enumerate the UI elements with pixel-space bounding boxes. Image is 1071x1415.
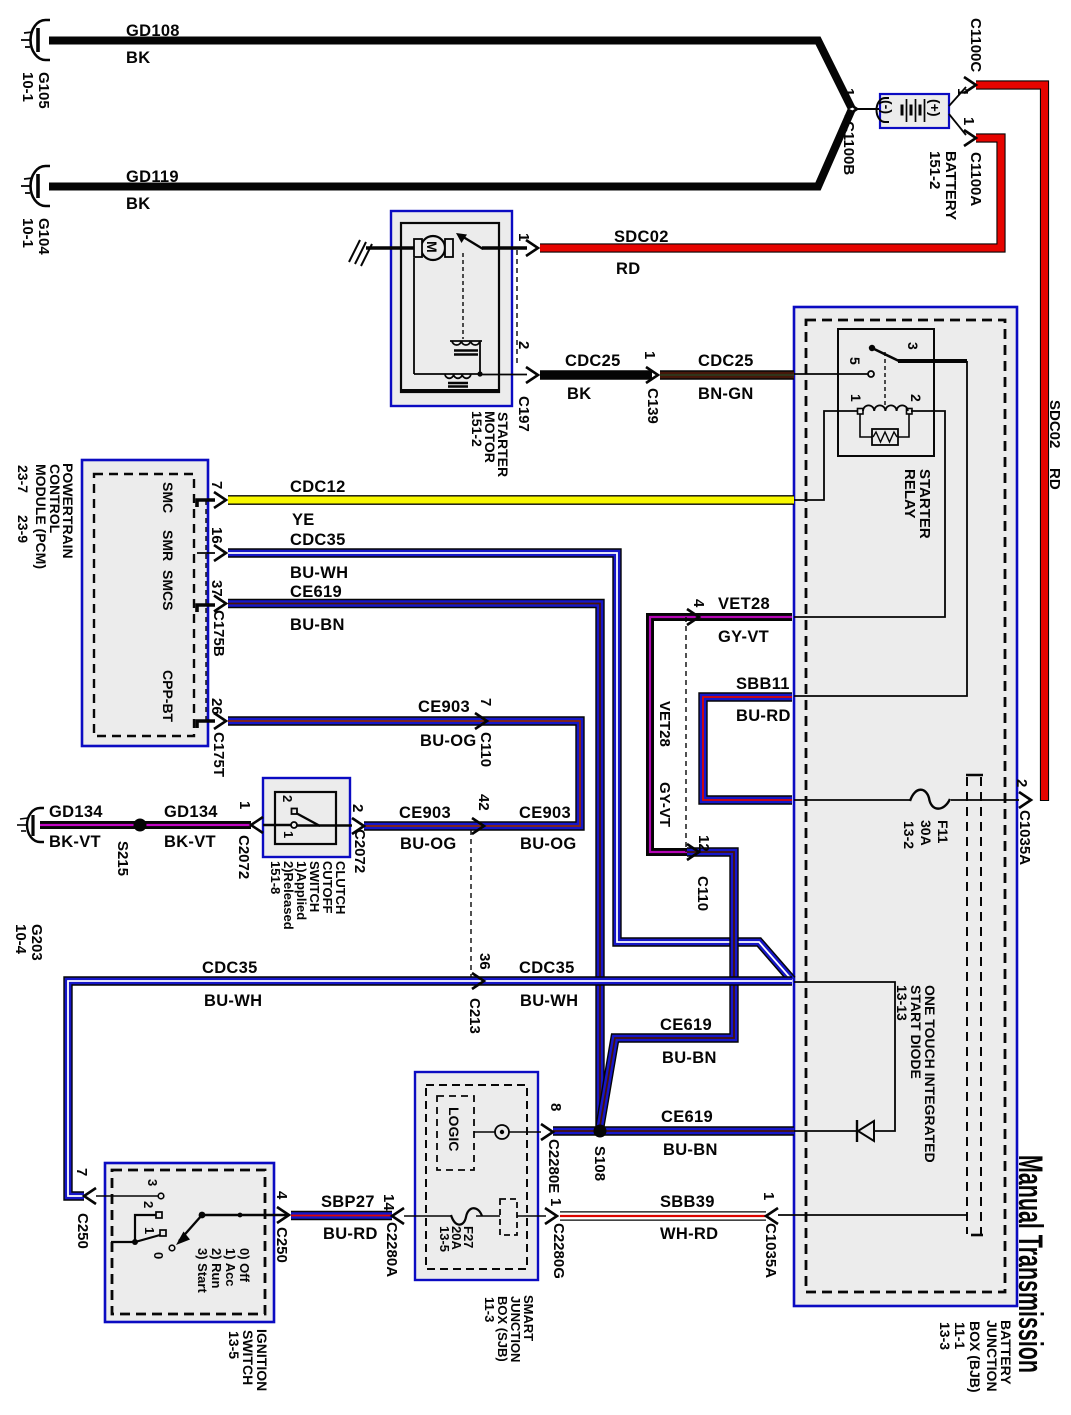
wire ignition switch output to pin 4 [202, 1214, 288, 1217]
label PCM pin names [160, 482, 176, 723]
wire GD134 BK-VT (G203 via S215 to clutch switch pin 1) [40, 821, 251, 829]
svg-text:GY-VT: GY-VT [718, 628, 769, 646]
svg-text:BOX (BJB): BOX (BJB) [967, 1321, 983, 1393]
svg-text:4: 4 [273, 1191, 290, 1200]
svg-text:10-4: 10-4 [12, 924, 29, 955]
label title Manual Transmission [1011, 1155, 1049, 1373]
label fuse F27 20A [437, 1226, 476, 1252]
svg-text:0) Off: 0) Off [237, 1248, 252, 1283]
svg-text:13-13: 13-13 [894, 985, 910, 1021]
svg-text:C213: C213 [466, 998, 483, 1034]
connector dashed line C175 (PCM pins) [205, 500, 207, 722]
label SJB pin 8 C2280E [545, 1103, 564, 1193]
svg-text:7: 7 [208, 481, 225, 489]
wire CE619 BU-BN (SJB pin 8 via S108 to BJB diode) [553, 1126, 794, 1135]
wire clutch switch pin 1 internal [263, 824, 291, 826]
label wire SBB11 BU-RD [736, 675, 791, 725]
svg-text:SBB11: SBB11 [736, 675, 790, 693]
arrow C139 pin 1 [646, 367, 658, 383]
wire BJB diode loop (CDC35 node to diode to CE619) [794, 982, 895, 1131]
svg-text:VET28: VET28 [656, 701, 673, 747]
starter motor symbol [414, 236, 453, 260]
svg-text:CE903: CE903 [418, 698, 470, 716]
svg-text:42: 42 [475, 794, 492, 811]
svg-text:SDC02: SDC02 [614, 228, 669, 246]
arrow SJB pin 1 C2280G [545, 1208, 557, 1224]
label connector C175B C175T [210, 610, 227, 777]
battery box [880, 94, 949, 128]
svg-text:1: 1 [281, 831, 296, 838]
svg-text:C139: C139 [644, 388, 661, 424]
label C110 pin 7 [477, 698, 494, 767]
svg-text:2: 2 [1013, 779, 1030, 787]
svg-text:CE903: CE903 [519, 804, 571, 822]
wire BJB relay pin 2 to VET28 [794, 411, 945, 617]
label battery [926, 151, 959, 220]
label wire VET28 GY-VT [718, 595, 770, 646]
svg-text:SMC: SMC [160, 482, 176, 513]
svg-text:MODULE (PCM): MODULE (PCM) [33, 464, 49, 569]
svg-text:GD134: GD134 [49, 803, 103, 821]
label wire CE903 BU-OG upper [418, 698, 477, 750]
label C1035A pin 2 [1013, 779, 1033, 865]
label ignition terminals [141, 1179, 166, 1259]
svg-text:C250: C250 [74, 1213, 91, 1249]
svg-text:1: 1 [641, 351, 658, 359]
svg-text:VET28: VET28 [718, 595, 770, 613]
label starter motor pins C197 [515, 233, 532, 432]
label wire CE619 BU-BN lower [661, 1108, 718, 1159]
label junction S215 [114, 841, 131, 876]
svg-text:G203: G203 [28, 924, 45, 961]
svg-text:1: 1 [840, 88, 857, 96]
arrow SJB pin 8 C2280E [541, 1124, 553, 1140]
label C110 pin 12 [694, 835, 712, 911]
wire BJB relay pin 3 to SBB11 [794, 361, 967, 696]
svg-text:12: 12 [695, 835, 712, 852]
label wire CE903 BU-OG lower left [399, 804, 457, 853]
arrow C1035A pin 2 [1019, 792, 1031, 808]
svg-text:23-9: 23-9 [15, 515, 31, 543]
wire clutch switch output internal [297, 824, 352, 826]
arrow SJB pin 14 C2280A [392, 1208, 404, 1224]
svg-text:16: 16 [208, 527, 225, 544]
label C1035A pin 1 [760, 1192, 779, 1278]
wire CE619 BU-BN (PCM pin 37 down to S108) [228, 604, 600, 1132]
label ignition pin 4 C250 [273, 1191, 290, 1263]
label ground G104 [19, 218, 52, 255]
svg-text:CDC35: CDC35 [202, 959, 258, 977]
svg-text:13-3: 13-3 [937, 1322, 953, 1350]
wire SJB logic to pin 8 [474, 1131, 541, 1133]
arrow PCM pin 7 [214, 492, 226, 508]
wire CE619 BU-BN (C110 pin 12 loop down to S108) [600, 852, 734, 1126]
arrow C110 pin 7 [475, 713, 487, 729]
svg-text:13-5: 13-5 [437, 1226, 452, 1252]
wire CDC25 BK (starter motor pin 2 to C139) [540, 370, 652, 380]
svg-text:S108: S108 [591, 1146, 608, 1181]
label SJB logic [446, 1107, 462, 1151]
label battery C1100A pin 1 [960, 117, 984, 206]
label PCM [15, 463, 76, 569]
wire GD108 BK (G105 to battery) [49, 41, 852, 109]
svg-text:C1035A: C1035A [1016, 810, 1033, 865]
label ignition pin 7 C250 [73, 1168, 91, 1249]
svg-text:1: 1 [547, 1198, 564, 1206]
wire CE903 BU-OG (PCM pin 26 via C110-7 down to clutch switch pin 2) [228, 721, 580, 826]
label SJB pin 14 C2280A [380, 1194, 400, 1277]
arrow PCM pin 37 [214, 596, 226, 612]
svg-text:151-8: 151-8 [268, 861, 283, 894]
svg-text:CE619: CE619 [660, 1016, 712, 1034]
svg-text:BU-OG: BU-OG [520, 835, 577, 853]
svg-text:CE619: CE619 [290, 583, 342, 601]
wire SDC02 RD (battery C1100C down right side to C1035A) [976, 85, 1045, 801]
label ignition positions [195, 1248, 252, 1293]
wire CDC35 BU-WH (PCM pin 16 to BJB node) [228, 553, 792, 980]
label wire CE903 BU-OG lower right [519, 804, 577, 853]
svg-text:SMR: SMR [160, 530, 176, 561]
ground G105 [21, 20, 50, 60]
fuse F27 [451, 1208, 482, 1224]
label clutch switch internal pins [280, 795, 296, 838]
svg-text:CDC12: CDC12 [290, 478, 346, 496]
label wire SDC02 RD horizontal [614, 228, 669, 278]
svg-text:M: M [424, 241, 440, 253]
wire ignition pin 7 to terminal 3 [96, 1195, 158, 1197]
arrow PCM pin 26 [214, 713, 226, 729]
arrow C1100B [845, 101, 857, 117]
diode (one touch integrated start) [857, 1120, 874, 1142]
label wire CDC35 BU-WH upper [290, 531, 348, 582]
svg-text:1: 1 [760, 1192, 777, 1200]
arrow starter motor pin 2 C197 [526, 367, 538, 383]
svg-text:C1100B: C1100B [840, 121, 857, 175]
label starter relay pins [847, 342, 924, 402]
svg-text:1: 1 [142, 1227, 157, 1234]
label junction S108 [591, 1146, 608, 1181]
svg-text:BK-VT: BK-VT [164, 833, 216, 851]
svg-text:C250: C250 [273, 1227, 290, 1263]
svg-text:G104: G104 [35, 218, 52, 255]
svg-text:G105: G105 [35, 72, 52, 109]
SJB logic output circle [495, 1125, 509, 1139]
svg-text:SMCS: SMCS [160, 570, 176, 610]
svg-text:36: 36 [476, 953, 493, 970]
svg-text:RELAY: RELAY [901, 469, 918, 518]
svg-text:GD119: GD119 [126, 168, 179, 186]
svg-text:C110: C110 [477, 732, 494, 767]
SJB logic box (dashed) [437, 1096, 474, 1170]
svg-text:C2280G: C2280G [550, 1223, 567, 1279]
svg-text:BK: BK [126, 49, 150, 67]
arrow C213 pin 36 [472, 973, 484, 989]
svg-text:BK: BK [567, 385, 591, 403]
fuse F11 [910, 790, 950, 809]
label wire GD119 BK [126, 168, 179, 213]
svg-text:BU-WH: BU-WH [520, 992, 578, 1010]
wire PCM pin stubs [197, 500, 215, 728]
svg-text:26: 26 [208, 698, 225, 715]
svg-text:BN-GN: BN-GN [698, 385, 754, 403]
wire starter motor switch to pin 1 [482, 246, 527, 250]
svg-text:13-5: 13-5 [226, 1331, 242, 1359]
wire CDC25 BN-GN (C139 to BJB) [660, 370, 794, 380]
svg-text:11-3: 11-3 [482, 1297, 497, 1322]
svg-text:C2072: C2072 [235, 835, 252, 879]
label SJB pin 1 C2280G [547, 1198, 567, 1279]
connector dashed line C110 [685, 617, 687, 852]
wire SBB11 BU-RD (BJB relay pin 3 loop to F11) [703, 697, 792, 800]
starter motor switch blade [456, 233, 483, 249]
wire ignition terminal 2/1 tie [111, 1215, 160, 1242]
battery junction box BJB [794, 307, 1017, 1306]
label wire SBB39 WH-RD [660, 1193, 718, 1243]
svg-text:2: 2 [141, 1201, 156, 1208]
wire SDC02 RD (battery C1100A to starter motor pin 1) [540, 138, 1001, 248]
svg-text:C2280E: C2280E [545, 1139, 562, 1193]
label fuse F11 30A [901, 820, 951, 849]
label connector C1100B pin 1 [840, 88, 857, 175]
label ground G105 [19, 72, 52, 109]
svg-text:GD134: GD134 [164, 803, 218, 821]
svg-text:C1035A: C1035A [762, 1223, 779, 1278]
svg-text:Manual Transmission: Manual Transmission [1011, 1155, 1049, 1373]
wire VET28 GY-VT (BJB to C110 pin 4 / pin 12) [650, 617, 792, 852]
svg-text:2: 2 [515, 341, 532, 349]
label wire CDC12 YE [290, 478, 346, 529]
svg-text:RD: RD [1046, 468, 1063, 490]
svg-text:13-2: 13-2 [901, 821, 917, 849]
wire BJB F11 feed [794, 799, 911, 801]
svg-text:4: 4 [690, 599, 707, 608]
starter relay link dashed [884, 352, 886, 406]
junction S215 [134, 819, 147, 832]
label wire GD134 BK-VT left [49, 803, 103, 851]
svg-text:C2072: C2072 [351, 829, 368, 873]
F27 fuse holder dashed box [500, 1199, 517, 1235]
ignition switch blade [176, 1212, 242, 1245]
label wire CDC25 BN-GN [698, 352, 754, 403]
label wire SDC02 RD vertical [1046, 400, 1063, 490]
wire SBB39 WH-RD (SJB pin 1 to BJB C1035A pin 1) [560, 1211, 766, 1220]
wire CDC35 BU-WH (BJB node via C213-36 down to ignition switch pin 7) [68, 981, 792, 1196]
svg-text:CDC35: CDC35 [519, 959, 575, 977]
svg-text:CE619: CE619 [661, 1108, 713, 1126]
arrow ignition pin 4 C250 [277, 1207, 289, 1223]
label clutch pin 2 C2072 [349, 804, 368, 873]
starter motor box [391, 211, 512, 406]
BJB internal bus bar (dashed) [966, 775, 983, 1235]
svg-text:8: 8 [547, 1103, 564, 1111]
starter relay box [838, 329, 934, 456]
wire BJB relay pin 5 to CDC25 [794, 373, 868, 375]
wire BJB relay pin 1 to CDC12 [794, 411, 858, 500]
svg-text:C1100A: C1100A [967, 152, 984, 206]
svg-text:10-1: 10-1 [19, 72, 36, 102]
svg-text:1: 1 [515, 233, 532, 241]
svg-text:0: 0 [151, 1252, 166, 1259]
svg-text:11-1: 11-1 [952, 1322, 968, 1349]
connector dashed line C197 [516, 250, 518, 364]
label PCM pin numbers [208, 481, 225, 715]
smart junction box SJB [415, 1072, 538, 1280]
starter relay resistor [860, 414, 909, 445]
svg-text:C175B: C175B [210, 610, 227, 657]
svg-text:GY-VT: GY-VT [656, 782, 673, 827]
arrow C110 pin 4 [687, 609, 699, 625]
battery right bracket wires [949, 87, 966, 135]
wire SJB pin 14 to F27 to pin 1 [404, 1215, 546, 1217]
svg-text:YE: YE [292, 511, 315, 529]
arrow battery C1100C [964, 77, 976, 93]
svg-text:2) Run: 2) Run [209, 1248, 224, 1289]
label C110 pin 4 [690, 599, 707, 608]
svg-text:1: 1 [960, 117, 977, 125]
svg-text:C110: C110 [694, 876, 711, 911]
battery cells [902, 99, 925, 122]
connector dashed line C213 [470, 830, 472, 977]
battery connector arc C1100B [877, 98, 890, 122]
arrow C110 pin 12 [687, 844, 699, 860]
svg-text:30A: 30A [918, 820, 934, 846]
svg-text:CDC25: CDC25 [698, 352, 754, 370]
label battery terminals [879, 99, 943, 117]
starter motor chassis hatch [349, 240, 372, 266]
svg-text:3: 3 [145, 1179, 160, 1186]
ground G203 [17, 808, 44, 842]
label clutch cutoff switch [268, 861, 348, 930]
arrow battery C1100A [964, 130, 976, 146]
svg-text:2: 2 [349, 804, 366, 812]
arrow C213 pin 42 [472, 818, 484, 834]
svg-text:23-7: 23-7 [15, 465, 31, 493]
ignition switch box [105, 1163, 274, 1322]
powertrain control module PCM box [82, 460, 208, 746]
svg-text:SBP27: SBP27 [321, 1193, 375, 1211]
label battery junction box [937, 1320, 1014, 1393]
svg-text:CDC35: CDC35 [290, 531, 346, 549]
svg-text:1: 1 [236, 801, 253, 809]
wire starter motor coil to pin 2 [480, 374, 527, 376]
junction S108 [594, 1125, 607, 1138]
svg-text:BU-WH: BU-WH [290, 564, 348, 582]
label smart junction box [482, 1295, 536, 1362]
svg-text:RD: RD [616, 260, 640, 278]
label wire GD108 BK [126, 22, 180, 67]
svg-text:GD108: GD108 [126, 22, 180, 40]
svg-text:151-2: 151-2 [926, 151, 943, 189]
wire GD119 BK (G104 to battery) [49, 110, 852, 187]
starter relay pin 5 terminal [868, 371, 874, 377]
label wire CE619 BU-BN upper [290, 583, 345, 634]
svg-text:BK: BK [126, 195, 150, 213]
svg-text:C197: C197 [515, 396, 532, 432]
svg-text:BU-OG: BU-OG [420, 732, 477, 750]
label starter relay [901, 469, 933, 539]
svg-text:BU-WH: BU-WH [204, 992, 262, 1010]
svg-text:1) Acc: 1) Acc [223, 1248, 238, 1287]
svg-text:3) Start: 3) Start [195, 1248, 210, 1293]
svg-text:BU-RD: BU-RD [323, 1225, 378, 1243]
svg-text:SDC02: SDC02 [1046, 400, 1063, 448]
label starter motor [469, 411, 511, 477]
svg-text:BU-RD: BU-RD [736, 707, 791, 725]
svg-text:1: 1 [848, 394, 864, 402]
label C139 pin 1 [641, 351, 661, 424]
svg-text:1: 1 [954, 88, 971, 96]
label wire CDC35 BU-WH long right [519, 959, 578, 1010]
svg-text:7: 7 [477, 698, 494, 706]
svg-text:C1100C: C1100C [967, 18, 984, 72]
svg-text:BU-BN: BU-BN [662, 1049, 717, 1067]
svg-text:(-): (-) [879, 100, 895, 114]
label wire CDC35 BU-WH long left [202, 959, 262, 1010]
svg-text:F11: F11 [935, 820, 951, 844]
svg-text:3: 3 [905, 342, 921, 350]
svg-text:CPP-BT: CPP-BT [160, 670, 176, 723]
label wire CDC25 BK [565, 352, 621, 403]
wire CDC12 YE (PCM pin 7 to BJB) [228, 495, 794, 505]
starter motor hold-in coil [445, 374, 471, 387]
label C213 pin 36 [466, 953, 493, 1034]
svg-text:10-1: 10-1 [19, 218, 36, 248]
wire F11 to C1035A pin 2 [951, 799, 1019, 801]
starter relay switch [869, 345, 899, 361]
label clutch pin 1 C2072 [235, 801, 253, 879]
arrow PCM pin 16 [214, 545, 226, 561]
svg-text:BU-BN: BU-BN [290, 616, 345, 634]
arrow starter motor pin 1 C197 [526, 240, 538, 256]
svg-text:14: 14 [380, 1194, 397, 1211]
arrow clutch switch pin 2 C2072 [352, 818, 364, 834]
label wire SBP27 BU-RD [321, 1193, 378, 1243]
svg-text:(+): (+) [927, 99, 943, 117]
svg-text:BK-VT: BK-VT [49, 833, 101, 851]
arrow clutch switch pin 1 C2072 [251, 817, 263, 833]
clutch switch terminals and blade [291, 809, 320, 829]
svg-text:2: 2 [280, 795, 295, 802]
svg-text:CDC25: CDC25 [565, 352, 621, 370]
wire battery C1100B link [856, 108, 879, 110]
svg-text:LOGIC: LOGIC [446, 1107, 462, 1151]
clutch cutoff switch box [263, 778, 350, 857]
svg-text:JUNCTION: JUNCTION [984, 1320, 1000, 1392]
label C213 pin 42 [475, 794, 492, 811]
svg-text:WH-RD: WH-RD [660, 1225, 718, 1243]
starter relay coil [858, 405, 913, 414]
svg-text:CE903: CE903 [399, 804, 451, 822]
svg-text:C175T: C175T [210, 732, 227, 777]
svg-text:SBB39: SBB39 [660, 1193, 715, 1211]
wire SBP27 BU-RD (ignition pin 4 to SJB pin 14) [291, 1211, 392, 1220]
label battery C1100C pin 1 [954, 18, 984, 96]
wire starter motor feed from chassis [366, 246, 415, 250]
wire diode anode to CE619 [794, 1130, 856, 1132]
arrow ignition pin 7 C250 [84, 1188, 96, 1204]
label wire GD134 BK-VT right [164, 803, 218, 851]
svg-text:C2280A: C2280A [383, 1222, 400, 1277]
label wire VET28 GY-VT vertical [656, 701, 673, 827]
svg-text:7: 7 [73, 1168, 90, 1176]
svg-text:5: 5 [847, 357, 863, 365]
starter motor internal circuit [414, 258, 483, 377]
wire SBB39 internal to bus [778, 1214, 967, 1216]
label ground G203 [12, 924, 45, 961]
label one touch integrated start diode [894, 985, 938, 1163]
label wire CE619 BU-BN loop [660, 1016, 717, 1067]
svg-text:S215: S215 [114, 841, 131, 876]
